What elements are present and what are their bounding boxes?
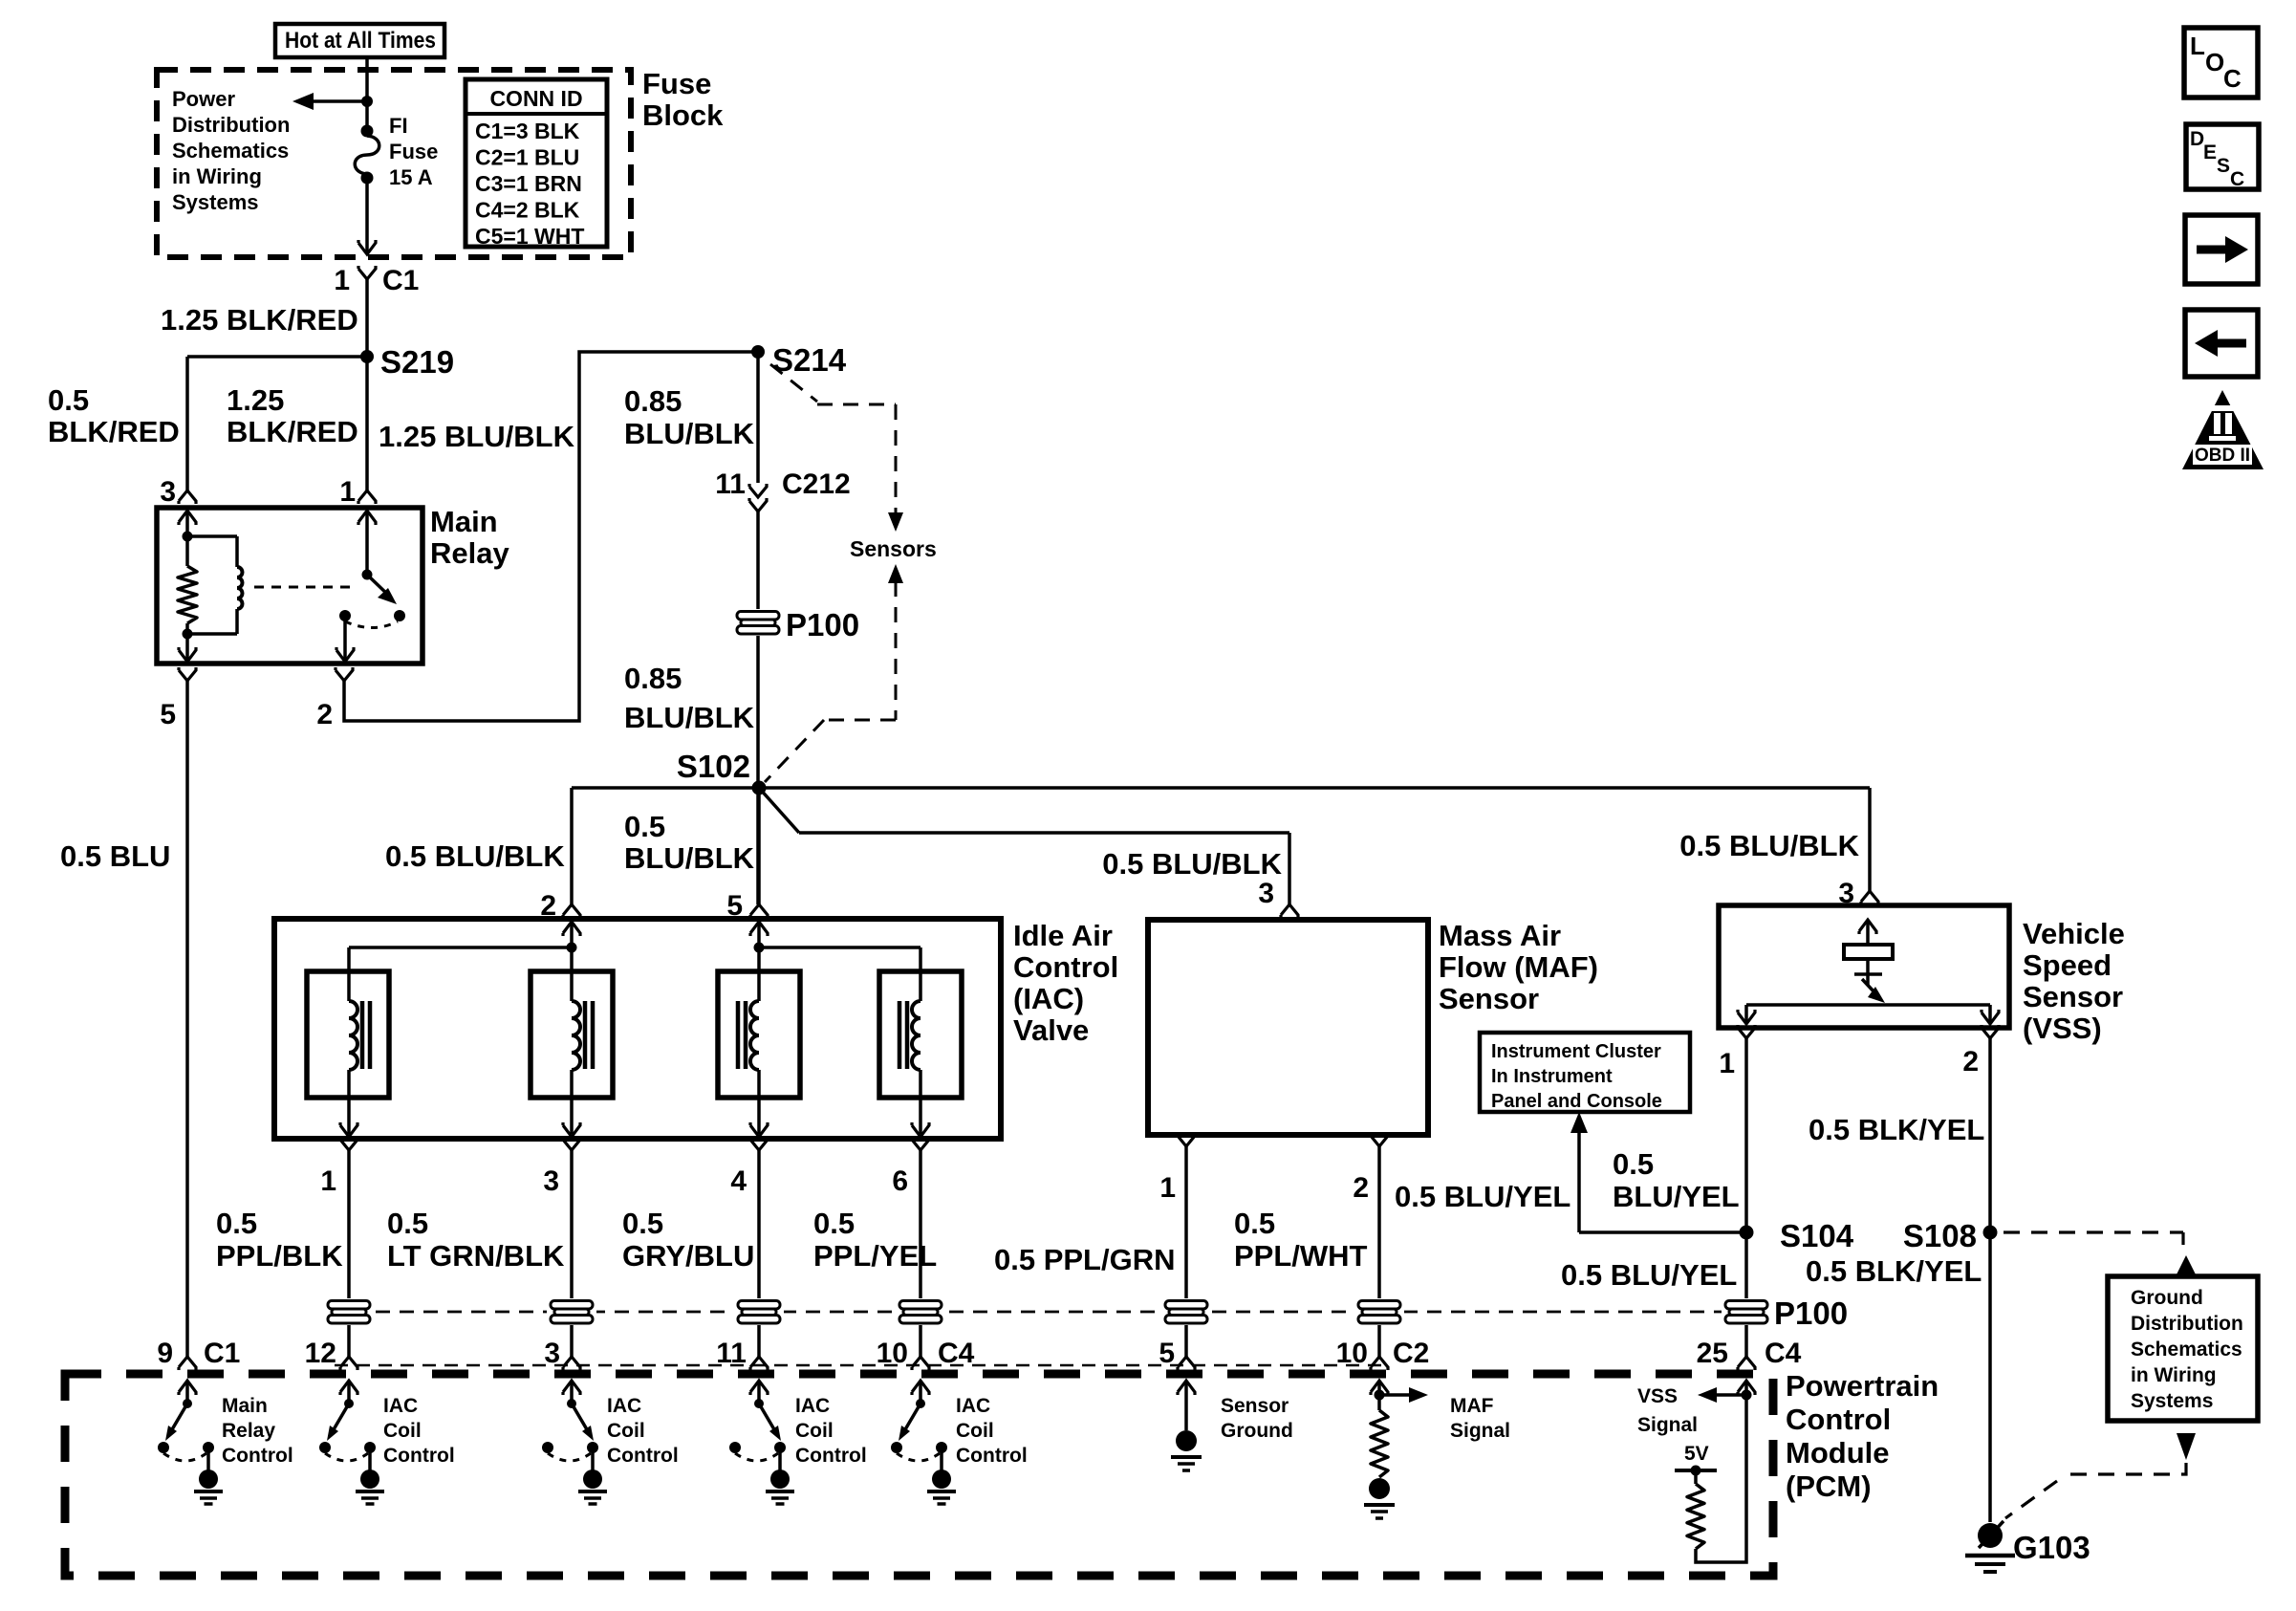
- svg-text:Sensor: Sensor: [1221, 1395, 1289, 1417]
- wire IAC coil3 feed: [757, 947, 761, 1001]
- PCM dashed box: [65, 1374, 1773, 1576]
- text 5V: [1684, 1443, 1709, 1465]
- label G103: [2013, 1530, 2090, 1565]
- svg-text:10: 10: [1336, 1338, 1368, 1369]
- connector chevron IAC pin4: [750, 1137, 768, 1150]
- svg-text:Control: Control: [956, 1445, 1028, 1467]
- svg-text:0.5: 0.5: [624, 810, 665, 843]
- splice S108: [1903, 1218, 1998, 1253]
- text MAF Signal: [1450, 1395, 1510, 1442]
- connector chevron PCM x=1827: [1738, 1357, 1755, 1370]
- icon left arrow box: [2185, 310, 2258, 377]
- wire label 0.5 BLU/BLK d: [1679, 829, 1859, 862]
- relay node bottom: [183, 629, 193, 640]
- wire label 0.5 BLU: [60, 839, 170, 873]
- connector C212 label: [782, 468, 851, 500]
- svg-text:1.25 BLK/RED: 1.25 BLK/RED: [161, 303, 358, 337]
- splice S219: [360, 344, 454, 380]
- PCM switch IAC Coil Control 2: [542, 1381, 607, 1504]
- grommet P100 at x=794: [734, 1298, 784, 1325]
- PCM pin label C2 at x=1443: [1393, 1338, 1429, 1369]
- svg-text:MAF: MAF: [1450, 1395, 1494, 1417]
- svg-text:in Wiring: in Wiring: [172, 164, 262, 188]
- svg-text:Control: Control: [607, 1445, 679, 1467]
- svg-text:GRY/BLU: GRY/BLU: [622, 1239, 754, 1273]
- grommet P100 at x=598: [547, 1298, 596, 1325]
- PCM switch IAC Coil Control 4: [891, 1381, 956, 1504]
- CONN ID table: [466, 79, 607, 249]
- svg-text:IAC: IAC: [956, 1395, 990, 1417]
- svg-text:Systems: Systems: [172, 190, 259, 214]
- svg-text:CONN ID: CONN ID: [489, 86, 582, 111]
- grommet P100 at x=365: [324, 1298, 374, 1325]
- text IAC Coil Control 3: [795, 1395, 867, 1467]
- PCM pin label 5 at x=1241: [1159, 1338, 1175, 1369]
- svg-text:0.5: 0.5: [216, 1207, 257, 1240]
- svg-text:PPL/BLK: PPL/BLK: [216, 1239, 343, 1273]
- arrow into C1: [358, 240, 376, 254]
- svg-text:S219: S219: [380, 344, 454, 380]
- svg-text:Relay: Relay: [222, 1420, 275, 1442]
- svg-text:Control: Control: [383, 1445, 455, 1467]
- connector chevron relay pin1: [358, 490, 376, 504]
- icon right arrow box: [2185, 215, 2258, 284]
- pin 1 label MAF: [1159, 1172, 1176, 1204]
- wire hot-to-fuse: [365, 57, 369, 125]
- MAF sensor box: [1148, 920, 1428, 1135]
- PCM pin label C4 at x=963: [938, 1338, 975, 1369]
- svg-text:D: D: [2190, 128, 2204, 150]
- relay pin5 arrow: [179, 634, 196, 662]
- pin 2 label VSS: [1962, 1046, 1979, 1078]
- icon LOC box: [2184, 28, 2258, 98]
- pin 1 label IAC bottom: [320, 1165, 336, 1197]
- VSS pickup: [1844, 920, 1893, 1003]
- wire label 0.5 BLU/BLK b: [624, 810, 755, 875]
- grommet P100 at x=1241: [1161, 1298, 1211, 1325]
- connector chevron relay pin2: [336, 667, 353, 681]
- splice S214: [751, 342, 847, 378]
- label P100 top: [786, 607, 859, 642]
- grommet P100 top: [733, 609, 783, 636]
- IAC coil 3: [738, 1001, 768, 1137]
- svg-text:1: 1: [320, 1165, 336, 1197]
- svg-text:Powertrain: Powertrain: [1786, 1369, 1939, 1403]
- svg-text:Relay: Relay: [430, 536, 509, 570]
- connector chevron PCM x=598: [563, 1357, 580, 1370]
- grommet P100 at x=1827: [1722, 1298, 1771, 1325]
- svg-text:L: L: [2190, 32, 2205, 60]
- pin 3 label MAF: [1258, 878, 1274, 909]
- svg-text:0.5 BLU/BLK: 0.5 BLU/BLK: [1679, 829, 1859, 862]
- svg-text:VSS: VSS: [1637, 1385, 1678, 1407]
- wire C212 to S102: [756, 512, 760, 904]
- svg-text:Mass Air: Mass Air: [1439, 919, 1561, 952]
- PCM MAF signal: [1364, 1381, 1428, 1518]
- wire MAF pin1 to PCM: [1184, 1146, 1188, 1357]
- wire to instrument cluster: [1570, 1112, 1746, 1232]
- wire label 1.25 BLU/BLK: [379, 420, 575, 453]
- wire label 1.25 BLK/RED 2: [227, 383, 358, 448]
- connector chevron PCM x=196: [179, 1357, 196, 1370]
- connector chevron IAC pin2: [563, 904, 580, 918]
- node IAC pin5 junction: [754, 943, 765, 953]
- svg-text:O: O: [2205, 48, 2224, 76]
- PCM pin label 3 at x=598: [544, 1338, 560, 1369]
- svg-text:C4: C4: [1765, 1338, 1802, 1369]
- svg-text:1: 1: [1159, 1172, 1176, 1204]
- pin 5 label IAC: [726, 890, 743, 922]
- PCM sensor ground: [1171, 1381, 1202, 1470]
- svg-text:(PCM): (PCM): [1786, 1469, 1872, 1503]
- svg-text:Control: Control: [1786, 1403, 1891, 1436]
- PCM switch IAC Coil Control 3: [729, 1381, 794, 1504]
- pin 2 label MAF: [1353, 1172, 1369, 1204]
- wire S102 to MAF pin3: [759, 788, 1289, 904]
- IAC valve box: [274, 919, 1001, 1139]
- svg-text:Coil: Coil: [795, 1420, 834, 1442]
- connector chevron MAF pin2: [1371, 1133, 1388, 1146]
- IAC coil 2: [563, 1001, 593, 1137]
- label Fuse Block: [642, 67, 724, 132]
- svg-text:BLU/BLK: BLU/BLK: [624, 841, 755, 875]
- wire label 0.5 BLK/YEL: [1809, 1113, 1984, 1146]
- svg-text:Idle Air: Idle Air: [1013, 919, 1113, 952]
- IAC pin2 arrow: [563, 922, 580, 947]
- pin 1 label VSS: [1719, 1048, 1735, 1079]
- svg-text:Power: Power: [172, 87, 235, 111]
- wire label 0.5 BLU/YEL c: [1561, 1258, 1737, 1292]
- label Mass Air Flow (MAF) Sensor: [1439, 919, 1598, 1015]
- svg-text:3: 3: [1258, 878, 1274, 909]
- svg-text:(VSS): (VSS): [2023, 1012, 2102, 1045]
- text Main Relay Control: [222, 1395, 293, 1467]
- ground distribution arrow in: [2177, 1255, 2196, 1274]
- svg-text:Signal: Signal: [1637, 1414, 1698, 1436]
- svg-text:1: 1: [1719, 1048, 1735, 1079]
- svg-text:LT GRN/BLK: LT GRN/BLK: [387, 1239, 565, 1273]
- svg-text:C5=1 WHT: C5=1 WHT: [475, 224, 584, 249]
- wire label 0.85 BLU/BLK upper: [624, 384, 755, 450]
- wire S219 down to relay: [365, 357, 369, 490]
- wire IAC coil2 feed: [570, 947, 574, 1001]
- svg-text:0.5 PPL/GRN: 0.5 PPL/GRN: [994, 1243, 1176, 1276]
- pin 3 label: [160, 476, 176, 508]
- text FI Fuse 15 A: [389, 114, 438, 189]
- svg-text:Sensor: Sensor: [2023, 980, 2123, 1013]
- connector chevron IAC pin6: [912, 1137, 929, 1150]
- pin 4 label IAC bottom: [730, 1165, 747, 1197]
- label P100 bottom: [1774, 1295, 1848, 1331]
- svg-text:Control: Control: [1013, 950, 1118, 984]
- wire IAC pin4 to PCM: [757, 1150, 761, 1357]
- svg-text:E: E: [2203, 142, 2217, 163]
- svg-text:OBD II: OBD II: [2195, 446, 2250, 466]
- wire MAF pin2 to PCM: [1377, 1146, 1381, 1357]
- pin 2 label: [316, 699, 333, 730]
- connector chevron VSS pin1: [1738, 1025, 1755, 1038]
- pin 1 label: [334, 265, 350, 296]
- svg-text:5: 5: [160, 699, 176, 730]
- PCM pin label 11 at x=794: [716, 1338, 747, 1369]
- relay dashed link: [254, 586, 357, 589]
- text Sensors: [850, 536, 937, 561]
- svg-text:C: C: [2230, 168, 2244, 190]
- text IAC Coil Control 4: [956, 1395, 1028, 1467]
- svg-text:Systems: Systems: [2131, 1390, 2213, 1412]
- svg-text:Flow (MAF): Flow (MAF): [1439, 950, 1598, 984]
- wire label 0.5 PPL/YEL: [813, 1207, 937, 1273]
- relay node top: [183, 532, 193, 542]
- dashed S108 to ground distribution: [2004, 1232, 2183, 1245]
- PCM pin label 10 at x=963: [877, 1338, 908, 1369]
- instrument cluster box: [1480, 1033, 1690, 1112]
- main relay box: [157, 508, 422, 664]
- ground G103: [1965, 1521, 2015, 1572]
- PCM pin label 25 at x=1827: [1697, 1338, 1728, 1369]
- PCM pin label C4 at x=1827: [1765, 1338, 1802, 1369]
- connector C212: [749, 484, 767, 512]
- svg-text:Hot at All Times: Hot at All Times: [285, 28, 436, 54]
- svg-text:C: C: [2223, 64, 2242, 93]
- icon OBD II triangle: [2182, 390, 2264, 469]
- wire label 0.5 LT GRN/BLK: [387, 1207, 565, 1273]
- relay pin3 arrow: [179, 511, 196, 536]
- VSS output wires: [1738, 1005, 1999, 1024]
- svg-text:Fuse: Fuse: [642, 67, 711, 100]
- svg-text:4: 4: [730, 1165, 747, 1197]
- svg-text:1.25 BLU/BLK: 1.25 BLU/BLK: [379, 420, 575, 453]
- svg-text:3: 3: [543, 1165, 559, 1197]
- wire IAC pin6 to PCM: [919, 1150, 922, 1357]
- wire label 0.5 PPL/WHT: [1234, 1207, 1368, 1273]
- relay switch: [336, 511, 405, 662]
- wire IAC pin1 to PCM: [347, 1150, 351, 1357]
- svg-text:Fuse: Fuse: [389, 140, 438, 163]
- label Idle Air Control (IAC) Valve: [1013, 919, 1118, 1047]
- svg-text:C4=2 BLK: C4=2 BLK: [475, 198, 580, 223]
- connector chevron PCM x=1241: [1178, 1357, 1195, 1370]
- svg-text:5: 5: [1159, 1338, 1175, 1369]
- text IAC Coil Control 1: [383, 1395, 455, 1467]
- svg-text:S104: S104: [1780, 1218, 1854, 1253]
- text Sensor Ground: [1221, 1395, 1293, 1442]
- svg-text:Main: Main: [430, 505, 498, 538]
- svg-text:C212: C212: [782, 468, 851, 500]
- connector chevron PCM x=963: [912, 1357, 929, 1370]
- svg-text:0.5 BLK/YEL: 0.5 BLK/YEL: [1806, 1254, 1982, 1288]
- label Powertrain Control Module (PCM): [1786, 1369, 1939, 1503]
- relay coil branch: [187, 536, 243, 634]
- wire S102 to VSS pin3: [759, 788, 1870, 891]
- svg-text:Vehicle: Vehicle: [2023, 917, 2125, 950]
- dashed to G103: [2005, 1463, 2186, 1518]
- connector chevron PCM x=365: [340, 1357, 357, 1370]
- svg-text:BLU/BLK: BLU/BLK: [624, 417, 755, 450]
- svg-text:0.5: 0.5: [387, 1207, 428, 1240]
- pin 3 label IAC bottom: [543, 1165, 559, 1197]
- connector C1 label: [382, 265, 419, 296]
- text IAC Coil Control 2: [607, 1395, 679, 1467]
- label Main Relay: [430, 505, 509, 570]
- connector chevron VSS pin3: [1861, 891, 1878, 904]
- connector chevron IAC pin1: [340, 1137, 357, 1150]
- wire IAC coil1 top link: [349, 947, 572, 1001]
- wire S102 left to IAC pin2: [572, 788, 759, 904]
- pin 6 label IAC bottom: [892, 1165, 908, 1197]
- svg-text:C1=3 BLK: C1=3 BLK: [475, 119, 580, 143]
- PCM switch Main Relay Control: [158, 1381, 223, 1504]
- wire label 0.5 PPL/BLK: [216, 1207, 343, 1273]
- svg-text:Ground: Ground: [1221, 1420, 1293, 1442]
- VSS box: [1719, 905, 2009, 1028]
- connector chevron IAC pin5: [750, 904, 768, 918]
- svg-text:0.5 BLU/BLK: 0.5 BLU/BLK: [1102, 847, 1282, 881]
- svg-text:Control: Control: [222, 1445, 293, 1467]
- splice S102: [677, 749, 767, 795]
- svg-text:15 A: 15 A: [389, 165, 433, 189]
- svg-text:2: 2: [1353, 1172, 1369, 1204]
- svg-text:Schematics: Schematics: [172, 139, 289, 163]
- svg-text:S108: S108: [1903, 1218, 1977, 1253]
- pin 11 label: [715, 468, 746, 500]
- wire label 0.5 BLK/RED: [48, 383, 180, 448]
- wire S214 down to C212: [756, 352, 760, 483]
- svg-text:0.5 BLU/YEL: 0.5 BLU/YEL: [1395, 1180, 1570, 1213]
- svg-text:0.5: 0.5: [1613, 1147, 1654, 1181]
- svg-text:(IAC): (IAC): [1013, 982, 1084, 1015]
- wire relay pin5 to PCM pin9: [185, 681, 189, 1357]
- svg-text:Coil: Coil: [607, 1420, 645, 1442]
- svg-text:in Wiring: in Wiring: [2131, 1364, 2217, 1386]
- svg-text:C4: C4: [938, 1338, 975, 1369]
- svg-text:0.5: 0.5: [622, 1207, 663, 1240]
- svg-text:Distribution: Distribution: [2131, 1313, 2243, 1335]
- wire relay pin2 to S214: [344, 352, 758, 721]
- svg-text:C3=1 BRN: C3=1 BRN: [475, 171, 582, 196]
- svg-text:P100: P100: [1774, 1295, 1848, 1331]
- power distribution arrow: [292, 93, 367, 110]
- wire label 0.5 BLU/YEL a: [1395, 1180, 1570, 1213]
- svg-text:Instrument Cluster: Instrument Cluster: [1491, 1041, 1661, 1062]
- svg-text:0.5: 0.5: [1234, 1207, 1275, 1240]
- svg-text:C2=1 BLU: C2=1 BLU: [475, 145, 579, 170]
- svg-text:PPL/YEL: PPL/YEL: [813, 1239, 937, 1273]
- svg-text:C1: C1: [204, 1338, 240, 1369]
- wire label 0.5 BLU/YEL b: [1613, 1147, 1740, 1213]
- svg-text:Panel and Console: Panel and Console: [1491, 1091, 1662, 1112]
- svg-text:Block: Block: [642, 98, 724, 132]
- svg-text:IAC: IAC: [383, 1395, 418, 1417]
- svg-text:11: 11: [715, 468, 746, 500]
- svg-text:Distribution: Distribution: [172, 113, 290, 137]
- svg-text:BLU/YEL: BLU/YEL: [1613, 1180, 1740, 1213]
- wire label 0.5 BLU/BLK a: [385, 839, 565, 873]
- svg-text:0.85: 0.85: [624, 662, 682, 695]
- IAC coil 4 box: [879, 971, 962, 1098]
- svg-text:Speed: Speed: [2023, 948, 2112, 982]
- text VSS Signal: [1637, 1385, 1698, 1436]
- node IAC pin2 junction: [567, 943, 577, 953]
- wire IAC coil4 top link: [759, 947, 921, 1001]
- svg-text:Module: Module: [1786, 1436, 1890, 1469]
- svg-text:10: 10: [877, 1338, 908, 1369]
- IAC coil 1 box: [307, 971, 389, 1098]
- svg-text:IAC: IAC: [795, 1395, 830, 1417]
- svg-text:S214: S214: [772, 342, 847, 378]
- IAC coil 4: [899, 1001, 929, 1137]
- panel dashed line: [328, 1311, 1726, 1314]
- grommet P100 at x=1443: [1354, 1298, 1404, 1325]
- PCM pin label 9 at x=196: [157, 1338, 173, 1369]
- wire C1 to S219: [365, 279, 369, 357]
- svg-text:Ground: Ground: [2131, 1287, 2203, 1309]
- wire VSS pin2 to G103: [1988, 1038, 1992, 1522]
- text Power Distribution Schematics in Wiring Systems: [172, 87, 290, 214]
- wire label 0.85 BLU/BLK lower: [624, 662, 755, 734]
- svg-text:Coil: Coil: [956, 1420, 994, 1442]
- svg-text:3: 3: [544, 1338, 560, 1369]
- svg-text:0.5 BLU/BLK: 0.5 BLU/BLK: [385, 839, 565, 873]
- wire label 1.25 BLK/RED: [161, 303, 358, 337]
- svg-text:Valve: Valve: [1013, 1013, 1089, 1047]
- PCM switch IAC Coil Control 1: [319, 1381, 384, 1504]
- svg-text:2: 2: [316, 699, 333, 730]
- svg-text:C2: C2: [1393, 1338, 1429, 1369]
- pin 5 label: [160, 699, 176, 730]
- svg-text:5V: 5V: [1684, 1443, 1709, 1465]
- PCM pin label 10 at x=1443: [1336, 1338, 1368, 1369]
- svg-text:0.5: 0.5: [813, 1207, 855, 1240]
- connector chevron relay pin5: [179, 667, 196, 681]
- connector chevron PCM x=1443: [1371, 1357, 1388, 1370]
- fuse FI 15A symbol: [355, 125, 379, 253]
- wire label 0.5 BLK/YEL b: [1806, 1254, 1982, 1288]
- splice S104: [1740, 1218, 1854, 1253]
- node fuse-block junction: [361, 96, 373, 107]
- ground distribution arrow out: [2177, 1433, 2196, 1460]
- connector chevron PCM x=794: [750, 1357, 768, 1370]
- fuse block dashed box: [157, 70, 631, 257]
- svg-text:12: 12: [305, 1338, 336, 1369]
- svg-text:BLK/RED: BLK/RED: [48, 415, 180, 448]
- IAC coil 2 box: [531, 971, 613, 1098]
- connector dashed line: [335, 1364, 1383, 1367]
- svg-text:0.5 BLK/YEL: 0.5 BLK/YEL: [1809, 1113, 1984, 1146]
- svg-text:9: 9: [157, 1338, 173, 1369]
- svg-text:P100: P100: [786, 607, 859, 642]
- wire IAC pin3 to PCM: [570, 1150, 574, 1357]
- svg-text:Main: Main: [222, 1395, 268, 1417]
- PCM VSS signal: [1675, 1381, 1755, 1562]
- connector C1 chevron: [358, 266, 376, 279]
- icon DESC box: [2186, 124, 2259, 190]
- connector chevron IAC pin3: [563, 1137, 580, 1150]
- wire label 0.5 BLU/BLK c: [1102, 847, 1282, 881]
- svg-text:BLK/RED: BLK/RED: [227, 415, 358, 448]
- svg-text:IAC: IAC: [607, 1395, 641, 1417]
- connector chevron VSS pin2: [1982, 1025, 1999, 1038]
- svg-text:G103: G103: [2013, 1530, 2090, 1565]
- wire S102 down to IAC pin5: [757, 788, 761, 904]
- svg-text:Signal: Signal: [1450, 1420, 1510, 1442]
- svg-text:0.5 BLU: 0.5 BLU: [60, 839, 170, 873]
- svg-text:Control: Control: [795, 1445, 867, 1467]
- svg-text:1: 1: [339, 476, 356, 508]
- grommet P100 at x=963: [896, 1298, 945, 1325]
- svg-text:C1: C1: [382, 265, 419, 296]
- box Hot at All Times: [275, 24, 444, 57]
